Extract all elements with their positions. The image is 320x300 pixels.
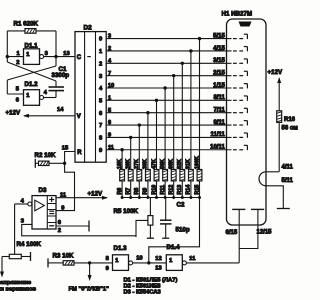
node R11 bus joint xyxy=(164,196,167,199)
svg-text:R14: R14 xyxy=(186,185,192,195)
node tap R14 xyxy=(189,49,192,52)
resistor R11 56K xyxy=(160,159,168,195)
node tap R9 xyxy=(146,111,149,114)
svg-text:8: 8 xyxy=(106,256,110,262)
svg-text:3: 3 xyxy=(21,218,25,224)
svg-text:D1.3: D1.3 xyxy=(114,245,128,252)
node tap R8 xyxy=(138,123,141,126)
D2 output pin numbers xyxy=(108,34,114,151)
node R14 bus joint xyxy=(189,196,192,199)
svg-text:5: 5 xyxy=(16,87,20,93)
wire R13 column xyxy=(181,63,183,197)
svg-text:7: 7 xyxy=(99,123,102,129)
resistor R7 20K xyxy=(126,159,134,195)
wire D1.3 out to D1.4 in xyxy=(133,262,167,264)
terminal C2 bottom xyxy=(162,237,169,239)
svg-text:R11: R11 xyxy=(160,185,166,195)
svg-text:10: 10 xyxy=(108,83,114,89)
resistor R15 100K xyxy=(194,156,202,195)
svg-text:12: 12 xyxy=(155,256,161,262)
resistor R9 39K xyxy=(143,159,151,195)
wire R9 column xyxy=(147,113,149,198)
svg-text:9: 9 xyxy=(106,266,110,272)
node R13 bus joint xyxy=(181,196,184,199)
node R7 bus joint xyxy=(129,196,132,199)
tube electrode arc xyxy=(259,172,266,186)
wire R11 column xyxy=(164,88,166,198)
svg-text:13: 13 xyxy=(63,51,70,57)
node R9 bus joint xyxy=(146,196,149,199)
wire ladder common bus xyxy=(122,197,199,199)
resistor R8 27K xyxy=(134,159,142,195)
wire R4 leads xyxy=(2,256,31,258)
resistor R1 xyxy=(14,21,39,34)
varicap voltage note xyxy=(0,280,36,292)
counter D2 xyxy=(75,25,106,163)
wire FM arrow xyxy=(88,263,92,281)
wire R10 column xyxy=(156,100,158,197)
svg-text:82K: 82K xyxy=(177,159,183,169)
svg-text:D2: D2 xyxy=(84,25,93,32)
wire R5 side stub to D3 pin3 net xyxy=(136,220,148,237)
svg-text:R16: R16 xyxy=(284,117,296,123)
node A input D1.1 xyxy=(6,55,24,58)
svg-text:11: 11 xyxy=(189,256,196,262)
svg-text:56K: 56K xyxy=(160,159,166,169)
svg-text:12/15: 12/15 xyxy=(257,230,273,236)
svg-text:R8: R8 xyxy=(134,188,140,195)
svg-text:настройки варикапов: настройки варикапов xyxy=(0,285,36,292)
wire +12V to R16 xyxy=(277,77,281,111)
svg-text:C2: C2 xyxy=(177,202,185,209)
svg-text:3: 3 xyxy=(108,34,111,40)
svg-text:14: 14 xyxy=(57,107,64,113)
H1 row pin labels xyxy=(210,33,225,150)
svg-text:R9: R9 xyxy=(143,188,149,195)
svg-text:Н1 ИВ27М: Н1 ИВ27М xyxy=(222,11,253,18)
wire R6 column xyxy=(121,150,123,198)
svg-text:V: V xyxy=(77,114,81,120)
node R15 bus joint xyxy=(198,196,201,199)
svg-text:R6: R6 xyxy=(117,188,123,195)
op-amp D1.3 xyxy=(113,245,133,271)
wire filament 12/15 xyxy=(239,209,258,248)
node tap R6 xyxy=(120,148,123,151)
svg-text:1: 1 xyxy=(108,95,111,101)
wire node A to C1 (diagonal) xyxy=(7,57,56,87)
svg-text:4/15: 4/15 xyxy=(213,46,225,52)
svg-text:8/11: 8/11 xyxy=(213,95,225,101)
indicator H1 IV-27M xyxy=(222,11,267,226)
svg-text:напряжение: напряжение xyxy=(0,280,32,286)
node B junction xyxy=(54,55,57,58)
svg-text:7: 7 xyxy=(108,71,111,77)
svg-text:R: R xyxy=(77,150,82,156)
wire D3 pin3 to R5 net xyxy=(22,224,136,235)
wire D3 pins 6,2 common xyxy=(56,225,89,227)
wire R14 column xyxy=(190,51,192,198)
resistor R13 82K xyxy=(177,159,185,195)
wire varicap output arrow xyxy=(0,257,4,278)
node tap R13 xyxy=(181,62,184,65)
svg-text:R12: R12 xyxy=(169,185,175,195)
svg-text:47K: 47K xyxy=(151,159,157,169)
resistor R6 10K xyxy=(117,159,125,195)
wire bus to D1.4 input xyxy=(149,198,200,263)
svg-text:+12V: +12V xyxy=(268,69,283,76)
svg-text:R2 10K: R2 10K xyxy=(35,152,57,159)
svg-text:R5 100K: R5 100K xyxy=(114,208,139,215)
node R12 bus joint xyxy=(172,196,175,199)
wire R1 top loop xyxy=(7,31,56,57)
svg-text:56 ом: 56 ом xyxy=(282,126,299,132)
op-amp D1.1 xyxy=(24,43,44,65)
svg-text:10/11: 10/11 xyxy=(210,145,225,151)
node FM branch xyxy=(88,261,91,264)
svg-text:68K: 68K xyxy=(169,159,175,169)
svg-text:39K: 39K xyxy=(143,159,149,169)
wire C1 to D1.2 output xyxy=(44,91,56,98)
svg-text:2: 2 xyxy=(99,61,102,67)
note IC types xyxy=(124,278,178,296)
node tap R11 xyxy=(163,86,166,89)
wire D3 pin4 to R4 xyxy=(15,204,28,255)
svg-text:5/11: 5/11 xyxy=(282,178,294,184)
svg-text:FM "0"/УКВ"1": FM "0"/УКВ"1" xyxy=(69,286,110,292)
svg-text:D1.2: D1.2 xyxy=(25,81,39,88)
terminal 5/11 ground bar xyxy=(277,208,290,210)
resistor R12 68K xyxy=(169,159,177,195)
op-amp D1.2 xyxy=(24,81,44,105)
svg-text:11: 11 xyxy=(108,145,114,151)
node R8 bus joint xyxy=(138,196,141,199)
node tap R12 xyxy=(172,74,175,77)
svg-text:9/11: 9/11 xyxy=(213,120,225,126)
svg-text:2: 2 xyxy=(58,228,61,234)
svg-text:6: 6 xyxy=(58,220,62,226)
svg-text:3/15: 3/15 xyxy=(213,58,225,64)
wire +12V to D2 V pin 14 xyxy=(23,114,75,118)
svg-text:10: 10 xyxy=(136,255,142,261)
svg-text:6/15: 6/15 xyxy=(226,230,238,236)
wire node B to D1.2 inputs (diagonal) xyxy=(7,57,56,94)
svg-text:6: 6 xyxy=(16,97,20,103)
svg-text:R3 10K: R3 10K xyxy=(53,253,75,260)
svg-text:100K: 100K xyxy=(194,156,200,169)
svg-text:D3: D3 xyxy=(39,187,47,194)
wire R5 top to bus xyxy=(149,198,151,216)
wire D3 pin11 to +12V xyxy=(56,196,108,200)
wire R12 column xyxy=(173,76,175,198)
svg-text:0: 0 xyxy=(99,37,102,43)
wire R2 leads xyxy=(35,162,64,164)
resistor R10 47K xyxy=(151,159,159,195)
node R2 junction xyxy=(63,162,66,165)
svg-text:27K: 27K xyxy=(134,159,140,169)
wire R15 column xyxy=(199,39,201,198)
svg-text:R1 620K: R1 620K xyxy=(14,21,39,28)
svg-text:7/11: 7/11 xyxy=(213,108,225,114)
svg-text:4/11: 4/11 xyxy=(282,165,294,171)
svg-text:5/15: 5/15 xyxy=(213,33,225,39)
wire R8 column xyxy=(138,125,140,197)
wire D1.1 output to D2 C xyxy=(44,56,75,58)
terminal R2 left xyxy=(34,159,36,168)
svg-text:15: 15 xyxy=(62,145,69,151)
terminal R5 bottom xyxy=(147,237,154,239)
svg-text:6: 6 xyxy=(108,120,111,126)
svg-text:2: 2 xyxy=(108,46,111,52)
svg-text:R15: R15 xyxy=(194,185,200,195)
wire pin 5/11 to terminal xyxy=(266,186,283,208)
wire filament 6/15 xyxy=(238,209,240,263)
svg-text:11/11: 11/11 xyxy=(210,132,225,138)
D2 output cell numbers 0-9 xyxy=(99,37,103,154)
svg-text:4: 4 xyxy=(44,90,48,96)
node R10 bus joint xyxy=(155,196,158,199)
terminal R4 right xyxy=(30,252,32,261)
wire R3 to D1.3 xyxy=(48,262,113,264)
svg-text:C: C xyxy=(77,55,82,61)
terminal R3 left xyxy=(47,258,49,267)
svg-text:+12V: +12V xyxy=(6,110,21,117)
wire R7 column xyxy=(130,137,132,197)
resistor R14 91K xyxy=(186,159,194,195)
svg-text:91K: 91K xyxy=(186,159,192,169)
svg-text:D1.4: D1.4 xyxy=(167,244,181,251)
wire R16 to tube pin 4/11 xyxy=(266,122,279,171)
resistor R2 xyxy=(35,152,57,166)
svg-text:+12V: +12V xyxy=(88,191,103,198)
capacitor C2 510p xyxy=(160,202,190,234)
resistor R4 100K xyxy=(9,241,41,259)
svg-text:510p: 510p xyxy=(176,227,190,234)
resistor R16 56 om xyxy=(277,111,299,132)
svg-text:R7: R7 xyxy=(126,188,132,195)
svg-text:1/15: 1/15 xyxy=(213,83,225,89)
svg-text:D3 - К554СА3: D3 - К554СА3 xyxy=(124,290,162,296)
svg-text:5: 5 xyxy=(108,108,111,114)
node D1.4 input xyxy=(147,261,150,264)
node tap R15 xyxy=(198,37,201,40)
terminal D3 pin6/2 xyxy=(88,221,90,232)
resistor R5 100K xyxy=(114,208,153,225)
wire C2 bottom xyxy=(165,224,167,238)
wire D2 R pin 15 xyxy=(56,152,75,211)
svg-text:3300p: 3300p xyxy=(52,72,70,79)
wire D1.2 input xyxy=(7,93,23,95)
wire R5 bottom xyxy=(149,225,151,238)
svg-text:R13: R13 xyxy=(177,185,183,195)
capacitor C1 xyxy=(49,66,70,91)
node tap R7 xyxy=(129,136,132,139)
H1 filament supports xyxy=(232,208,264,210)
svg-text:13: 13 xyxy=(155,265,162,271)
svg-text:10K: 10K xyxy=(117,159,123,169)
wire D1.4 output to H1 filament xyxy=(186,262,239,264)
resistor R3 10K xyxy=(53,253,75,266)
op-amp D1.4 xyxy=(166,244,186,270)
svg-text:20K: 20K xyxy=(126,159,132,169)
wire D2 outputs to H1 rows xyxy=(106,39,231,150)
comparator D3 K554CA3 xyxy=(28,187,56,229)
svg-text:R4 100K: R4 100K xyxy=(17,241,42,248)
svg-text:9: 9 xyxy=(108,133,111,139)
svg-text:R10: R10 xyxy=(151,185,157,195)
svg-text:2/15: 2/15 xyxy=(213,70,225,76)
wire C2 top to bus xyxy=(165,198,167,221)
H1 grid/anode segment marks xyxy=(233,34,247,150)
node tap R10 xyxy=(155,99,158,102)
node R6 bus joint xyxy=(121,196,124,199)
